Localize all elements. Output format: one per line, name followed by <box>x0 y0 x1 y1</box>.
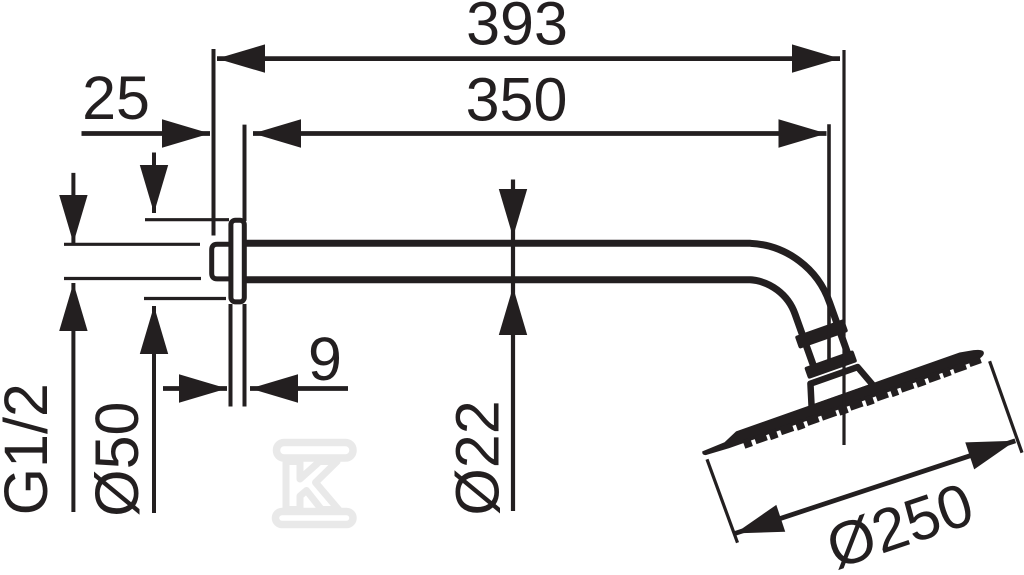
flange bottom extension line <box>144 297 226 300</box>
25 arrowhead <box>162 119 210 147</box>
9 dimension line right part <box>250 386 348 391</box>
wall flange plate <box>231 220 244 302</box>
head group (rotated frame at head centre) <box>676 279 988 463</box>
393 right extension line <box>842 50 845 445</box>
svg-text:Ø50: Ø50 <box>83 402 151 517</box>
svg-text:393: 393 <box>466 0 568 57</box>
G1/2 top arrowhead <box>59 195 87 243</box>
shower arm tube (outer black) <box>245 262 831 362</box>
O50 top arrowhead <box>140 165 168 213</box>
flange top extension line <box>145 218 229 221</box>
G1/2 dimension line upper stub <box>71 173 75 243</box>
watermark K logo <box>276 443 354 525</box>
O50 dimension line lower <box>152 306 156 513</box>
350 dimension line <box>253 131 827 136</box>
O22 dimension line upper stub <box>511 180 515 288</box>
svg-text:Ø22: Ø22 <box>444 400 512 515</box>
9 right arrowhead <box>250 374 298 402</box>
joint trapezoid <box>804 364 874 408</box>
O22 dimension line lower <box>511 287 515 511</box>
nipple top extension line <box>64 243 200 246</box>
O22 top arrowhead <box>499 189 527 237</box>
O250 dimension line <box>735 441 1015 534</box>
9 left arrowhead <box>179 374 227 402</box>
collar band 1 on arm <box>795 319 849 349</box>
collar band 2 on arm <box>804 350 857 379</box>
O50 dimension line upper stub <box>152 153 156 214</box>
G1/2 bottom arrowhead <box>59 283 87 331</box>
svg-text:9: 9 <box>308 325 342 393</box>
9 dimension line left part <box>163 386 227 391</box>
svg-text:25: 25 <box>82 64 150 132</box>
350 right arrowhead <box>779 119 827 147</box>
wall extension line <box>212 49 216 236</box>
O250 left arrowhead <box>731 505 785 547</box>
9-dim right extension line <box>243 304 247 407</box>
G1/2 dimension line lower <box>71 283 75 512</box>
nipple bottom extension line <box>64 277 201 280</box>
O250 right extension line <box>990 361 1022 453</box>
svg-text:350: 350 <box>466 66 568 134</box>
393 left arrowhead <box>217 44 265 72</box>
9-dim left extension line <box>229 304 233 407</box>
head spray nozzles (teeth) <box>742 356 982 449</box>
350 right extension line <box>827 124 831 362</box>
O250 right arrowhead <box>965 427 1019 469</box>
393 dimension line <box>217 56 840 61</box>
O22 bottom arrowhead <box>499 287 527 335</box>
G1/2 thread nipple <box>212 244 231 279</box>
shower head slab <box>699 345 985 457</box>
flange face extension line <box>243 125 247 221</box>
O50 bottom arrowhead <box>140 306 168 354</box>
dimension lines <box>73 59 1015 534</box>
svg-text:G1/2: G1/2 <box>0 383 60 515</box>
25 dimension line <box>82 131 211 136</box>
350 left arrowhead <box>253 119 301 147</box>
shower arm tube (inner white) <box>245 262 831 362</box>
O250 left extension line <box>707 459 738 542</box>
393 right arrowhead <box>792 44 840 72</box>
